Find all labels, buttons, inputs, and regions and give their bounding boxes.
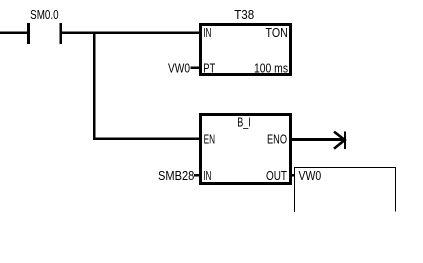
svg-text:B_I: B_I: [237, 115, 251, 130]
svg-text:VW0: VW0: [168, 61, 190, 76]
contact SM0.0 right bar: [59, 23, 62, 44]
svg-text:EN: EN: [204, 132, 215, 147]
wire branch horizontal to B_I EN: [93, 137, 201, 140]
svg-text:SMB28: SMB28: [158, 168, 194, 183]
arrow end bar: [344, 131, 346, 149]
pin stub VW0 to PT: [190, 67, 199, 70]
svg-text:IN: IN: [203, 168, 211, 183]
arrow chevron (open rung continuation): [334, 132, 345, 149]
box B_I U1: [200, 114, 290, 183]
timer box T38: [200, 24, 290, 74]
pin stub OUT to VW0: [291, 174, 295, 177]
svg-text:OUT: OUT: [266, 168, 287, 183]
svg-text:PT: PT: [203, 61, 215, 76]
operand field box VW0 (open bottom rectangle): [295, 168, 396, 212]
svg-text:100 ms: 100 ms: [254, 61, 288, 76]
svg-text:TON: TON: [266, 25, 288, 40]
contact SM0.0 left bar: [27, 23, 30, 44]
wire branch vertical: [93, 31, 96, 140]
wire ENO output: [291, 138, 344, 141]
wire contact to T38 IN: [62, 31, 201, 34]
pin stub SMB28 to IN: [194, 174, 200, 177]
svg-text:SM0.0: SM0.0: [30, 7, 59, 22]
svg-text:T38: T38: [234, 7, 254, 22]
svg-text:IN: IN: [203, 25, 211, 40]
svg-text:VW0: VW0: [299, 168, 322, 183]
svg-text:ENO: ENO: [267, 132, 287, 147]
wire left rail segment: [0, 31, 27, 34]
